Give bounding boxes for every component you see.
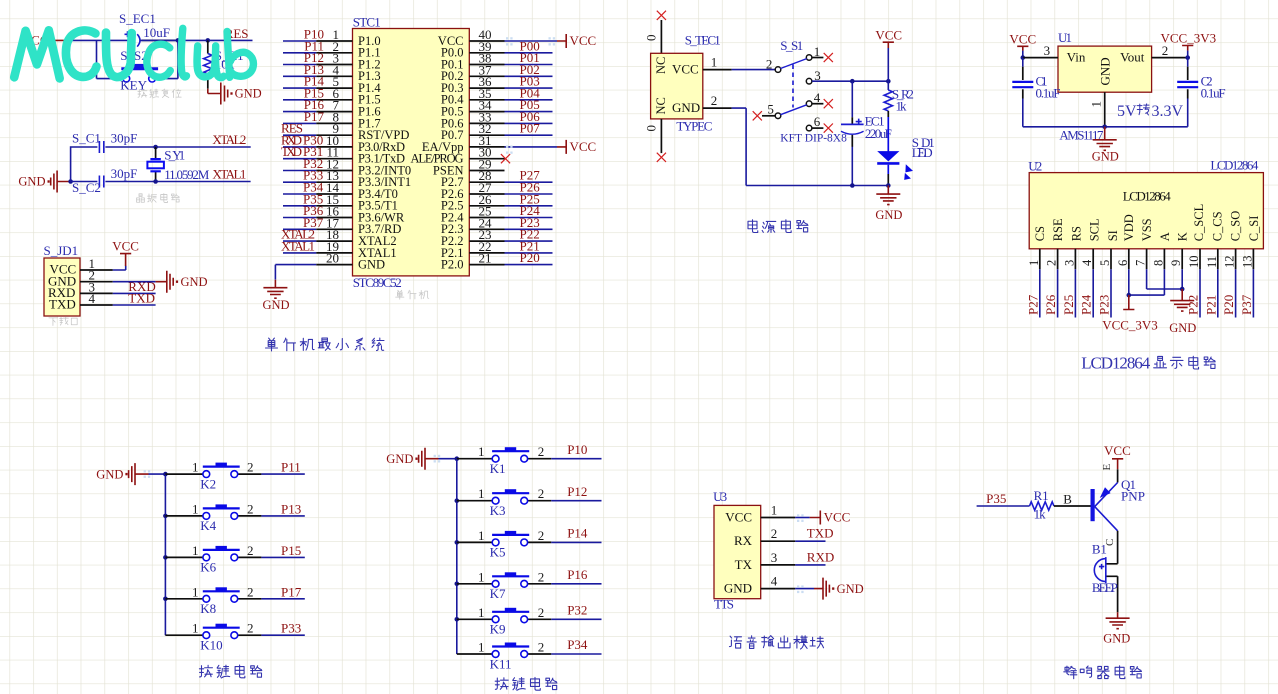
- svg-text:GND: GND: [1098, 57, 1113, 85]
- svg-text:0.1uF: 0.1uF: [1201, 86, 1226, 101]
- svg-text:S_TEC1: S_TEC1: [685, 33, 721, 48]
- svg-text:RS: RS: [1069, 226, 1083, 241]
- wire P10: [551, 442, 601, 459]
- IC U2 LCD12864: [1028, 158, 1263, 249]
- pin numbers U3: [771, 503, 778, 589]
- wire bus (keys left): [164, 474, 166, 635]
- svg-text:P23: P23: [1097, 295, 1112, 315]
- wire VDD to VCC_3V3 and to A: [1129, 269, 1165, 295]
- logo M: [14, 30, 60, 78]
- title 语音输出模块: [729, 636, 823, 649]
- svg-text:2: 2: [538, 528, 545, 543]
- pin 1 U3 + power port VCC: [761, 510, 851, 525]
- svg-text:K4: K4: [200, 518, 216, 533]
- svg-text:B1: B1: [1092, 542, 1107, 557]
- svg-text:VCC: VCC: [875, 27, 902, 42]
- pin 2 wire: [80, 281, 156, 283]
- svg-text:11.0592M: 11.0592M: [164, 167, 209, 182]
- connector S_JD1: [44, 243, 81, 316]
- wires P2 bus right: [505, 182, 553, 264]
- wires U2 pins 10-13: [1200, 269, 1253, 317]
- logo l: [181, 28, 186, 77]
- IC STC1 STC89C52: [353, 15, 470, 290]
- title 蜂鸣器电路: [1064, 666, 1142, 679]
- svg-text:S_JD1: S_JD1: [44, 243, 79, 258]
- svg-text:KFT DIP-8X8: KFT DIP-8X8: [780, 133, 847, 145]
- net labels P22 P21 P20 P37 (rotated): [1186, 294, 1254, 315]
- node junction EC1 bottom: [850, 183, 855, 188]
- pin names STC1 right: [411, 34, 465, 272]
- svg-text:S_C1: S_C1: [72, 131, 101, 146]
- wire P16: [551, 567, 601, 584]
- svg-text:VCC: VCC: [672, 62, 699, 77]
- svg-text:6: 6: [1116, 260, 1130, 266]
- wires P0 bus right: [505, 53, 553, 135]
- svg-text:VCC: VCC: [1104, 443, 1131, 458]
- wire P34: [551, 637, 601, 654]
- pin 4 U3 + ground GND (sideways): [761, 578, 864, 600]
- svg-text:2: 2: [247, 543, 254, 558]
- node junction K: [1180, 287, 1185, 292]
- net label XTAL2: [212, 132, 246, 147]
- logo C: [66, 30, 97, 76]
- wire VCC_3V3 down: [1187, 51, 1189, 58]
- svg-text:P2.0: P2.0: [441, 258, 464, 272]
- svg-text:2: 2: [538, 640, 545, 655]
- svg-text:5: 5: [767, 102, 774, 117]
- label B (base): [1063, 491, 1072, 506]
- wire node to node R1: [178, 39, 208, 41]
- node junction bus top: [163, 472, 168, 477]
- pin numbers S_S1: [766, 44, 821, 129]
- svg-text:GND: GND: [837, 582, 864, 596]
- svg-text:1: 1: [478, 486, 485, 501]
- pin 4 wire: [80, 304, 156, 306]
- svg-text:6: 6: [814, 114, 821, 129]
- net label RXD: [128, 279, 155, 294]
- key K7: [457, 569, 552, 601]
- pin stub + X on S_S1 pin 5: [762, 115, 775, 117]
- svg-text:GND: GND: [358, 258, 385, 272]
- power port VCC (reset): [22, 33, 64, 48]
- node junction GND rail: [1102, 125, 1107, 130]
- svg-text:GND: GND: [875, 208, 902, 222]
- wire P11: [261, 460, 304, 475]
- pin stub + X on S_S1 pin 1: [812, 57, 824, 59]
- net label XTAL1: [212, 166, 246, 181]
- wire VSS to K: [1147, 269, 1183, 289]
- svg-text:NC: NC: [654, 57, 668, 74]
- capacitor S_C1 30pF: [72, 131, 137, 153]
- node junctions bus: [163, 514, 168, 519]
- pins STC1 right (black stubs): [469, 41, 504, 265]
- wire bus (keys middle): [456, 459, 458, 654]
- ground GND (reset, sideways right): [208, 83, 262, 105]
- svg-text:P17: P17: [281, 584, 302, 599]
- power port VCC (AMS in): [1009, 31, 1036, 50]
- key K10: [165, 621, 261, 653]
- svg-text:S_S1: S_S1: [780, 38, 803, 53]
- svg-text:0.1uF: 0.1uF: [1036, 86, 1061, 101]
- svg-text:P21: P21: [1203, 295, 1218, 315]
- svg-text:P17: P17: [304, 109, 325, 124]
- svg-text:2: 2: [247, 584, 254, 599]
- ground GND (crystal, sideways left of rail): [18, 171, 70, 193]
- wire P33: [261, 621, 304, 636]
- pin 0 top (TYPEC): [644, 20, 662, 53]
- net labels P27-P20: [520, 168, 541, 265]
- IC U3 TTS: [713, 489, 761, 611]
- capacitor S_C2 30pF: [72, 166, 137, 195]
- svg-text:C_SI: C_SI: [1247, 216, 1261, 242]
- crystal S_Y1 11.0592M: [147, 147, 209, 182]
- svg-text:P14: P14: [567, 526, 588, 541]
- wire S_C1 to XTAL2: [105, 146, 250, 148]
- pin 2 S_TEC1: [703, 93, 732, 108]
- svg-text:VCC_3V3: VCC_3V3: [1102, 318, 1158, 333]
- svg-text:1: 1: [192, 501, 199, 516]
- wire GND to bus: [439, 458, 457, 460]
- svg-text:NC: NC: [654, 97, 668, 114]
- svg-text:10uF: 10uF: [143, 25, 170, 40]
- svg-text:1: 1: [1027, 260, 1041, 266]
- svg-text:1: 1: [711, 55, 718, 70]
- svg-text:1: 1: [771, 503, 778, 518]
- svg-text:VCC: VCC: [570, 33, 597, 48]
- svg-text:VCC: VCC: [824, 510, 851, 525]
- svg-text:30pF: 30pF: [111, 131, 138, 146]
- svg-text:8: 8: [1151, 260, 1165, 266]
- svg-text:P35: P35: [986, 491, 1006, 506]
- logo c: [147, 44, 170, 77]
- wires U2 pins 1-5: [1040, 269, 1111, 317]
- svg-text:K7: K7: [490, 586, 506, 601]
- svg-text:GND: GND: [235, 87, 262, 101]
- svg-text:C_CS: C_CS: [1210, 211, 1224, 241]
- svg-text:K11: K11: [490, 656, 512, 671]
- wire P13: [261, 501, 304, 516]
- svg-text:R1: R1: [1034, 488, 1049, 503]
- pin numbers S_JD1: [89, 256, 96, 306]
- svg-text:STC89C52: STC89C52: [353, 275, 402, 290]
- node junction at R1: [206, 38, 211, 43]
- svg-text:2: 2: [247, 460, 254, 475]
- resistor S_R2 1k: [884, 81, 914, 151]
- logo U: [106, 33, 132, 78]
- svg-text:TXD: TXD: [807, 526, 834, 541]
- svg-text:K8: K8: [200, 601, 216, 616]
- svg-text:1: 1: [192, 460, 199, 475]
- svg-text:GND: GND: [1103, 632, 1130, 646]
- title 按键电路 (left): [199, 665, 261, 678]
- svg-text:VDD: VDD: [1122, 214, 1136, 241]
- wire P17: [261, 584, 304, 599]
- capacitor S_EC1 10uF: [119, 11, 178, 47]
- svg-text:K1: K1: [490, 461, 506, 476]
- svg-text:VSS: VSS: [1140, 218, 1154, 241]
- svg-text:CS: CS: [1033, 226, 1047, 241]
- svg-text:P13: P13: [281, 501, 301, 516]
- svg-text:GND: GND: [96, 467, 123, 481]
- ground GND (LCD): [1169, 289, 1196, 335]
- pin numbers STC1 right 40-21: [479, 27, 493, 266]
- wire P32: [551, 603, 601, 620]
- svg-text:U3: U3: [713, 489, 727, 504]
- svg-text:0: 0: [644, 35, 659, 42]
- svg-text:7: 7: [1134, 260, 1148, 266]
- svg-text:TTS: TTS: [714, 596, 734, 611]
- wire P15: [261, 543, 304, 558]
- svg-text:KEY: KEY: [120, 78, 147, 93]
- power port VCC (S_JD1): [112, 239, 139, 266]
- svg-text:RSE: RSE: [1051, 218, 1065, 241]
- svg-text:P27: P27: [1025, 294, 1040, 315]
- net labels P00-P07: [520, 38, 541, 135]
- svg-text:P10: P10: [567, 442, 587, 457]
- svg-text:3: 3: [1044, 43, 1051, 58]
- transistor Q1 PNP: [1091, 477, 1146, 531]
- capacitor EC1 220uF: [841, 81, 892, 185]
- svg-text:2: 2: [538, 569, 545, 584]
- svg-text:K: K: [1176, 232, 1190, 241]
- svg-text:5: 5: [1098, 260, 1112, 266]
- logo b: [227, 31, 253, 77]
- svg-text:1: 1: [192, 543, 199, 558]
- svg-text:2: 2: [766, 56, 773, 71]
- svg-text:S_C2: S_C2: [72, 180, 101, 195]
- pin 2 U1: [1152, 43, 1188, 58]
- wire bottom rail XTAL1: [71, 181, 251, 183]
- ground GND (keys left): [96, 463, 148, 485]
- svg-text:K10: K10: [200, 638, 222, 653]
- wire switch branch left: [97, 40, 178, 78]
- svg-text:1: 1: [192, 584, 199, 599]
- node snap markers (light blue): [144, 37, 804, 593]
- wire P14: [551, 526, 601, 543]
- svg-text:P24: P24: [1079, 294, 1094, 315]
- node junction VDD: [1127, 293, 1132, 298]
- net label TXD: [128, 291, 155, 306]
- svg-text:STC1: STC1: [353, 15, 381, 30]
- svg-text:TXD: TXD: [128, 291, 155, 306]
- key K3: [457, 486, 552, 518]
- key K5: [457, 528, 552, 560]
- pin 3 U3 + net label RXD: [761, 549, 835, 565]
- node junction at crystal top: [153, 145, 158, 150]
- connector S_TEC1 TYPEC: [651, 33, 721, 134]
- wire VCC to R2: [887, 48, 889, 81]
- svg-text:2: 2: [711, 93, 718, 108]
- svg-text:SI: SI: [1106, 230, 1120, 241]
- pin numbers STC1 left 1-20: [326, 27, 340, 266]
- capacitor C1 0.1uF: [1012, 58, 1104, 127]
- wire TEC1 to switch: [732, 69, 776, 71]
- svg-text:VCC: VCC: [725, 510, 752, 525]
- logo u: [197, 46, 224, 78]
- wire VCC to S_EC1: [64, 39, 129, 41]
- wire GND to bus: [149, 473, 166, 475]
- node junction at cap/switch: [176, 38, 181, 43]
- svg-text:13: 13: [1240, 256, 1254, 269]
- wire GND pin20: [275, 265, 316, 280]
- svg-text:1: 1: [478, 605, 485, 620]
- svg-text:11: 11: [1205, 256, 1219, 268]
- node junctions bus: [455, 498, 460, 503]
- power port VCC_3V3 (AMS out): [1160, 31, 1216, 51]
- svg-text:LCD12864: LCD12864: [1123, 188, 1172, 203]
- svg-text:2: 2: [247, 621, 254, 636]
- svg-text:GND: GND: [724, 581, 752, 596]
- svg-text:P22: P22: [1186, 295, 1201, 315]
- svg-text:2: 2: [247, 501, 254, 516]
- svg-text:2: 2: [538, 444, 545, 459]
- node junction bus top: [455, 456, 460, 461]
- svg-text:1k: 1k: [896, 99, 908, 114]
- svg-text:LCD12864: LCD12864: [1210, 158, 1259, 173]
- pins U2 (black stubs down): [1040, 249, 1254, 269]
- title 按键电路 (middle): [495, 677, 557, 690]
- key K9: [457, 605, 552, 637]
- label C (rotated): [1104, 539, 1116, 546]
- wire GND rail bottom: [732, 108, 889, 185]
- wire P12: [551, 484, 601, 501]
- node junction EC1 top: [850, 79, 855, 84]
- svg-text:1: 1: [192, 621, 199, 636]
- pin stub + X on S_S1 pin 4: [812, 103, 824, 105]
- pin 2 U3 + net label TXD: [761, 526, 834, 542]
- node junction at crystal bottom: [153, 179, 158, 184]
- ground GND (buzzer): [1103, 612, 1130, 645]
- wire VCC down: [1022, 51, 1024, 58]
- label 下载口 (gray): [49, 317, 77, 326]
- svg-text:TXD: TXD: [49, 297, 76, 312]
- svg-text:VCC_3V3: VCC_3V3: [1160, 31, 1216, 46]
- ground GND (S_JD1, sideways): [156, 271, 208, 293]
- svg-text:3: 3: [771, 550, 778, 565]
- svg-text:TX: TX: [735, 557, 753, 572]
- pin 3 U1: [1023, 43, 1058, 58]
- svg-text:K6: K6: [200, 560, 216, 575]
- svg-text:9: 9: [1169, 260, 1183, 266]
- svg-text:RX: RX: [734, 533, 753, 548]
- label 晶振电路 (gray): [137, 194, 180, 203]
- svg-text:U2: U2: [1028, 158, 1042, 173]
- svg-text:Vin: Vin: [1067, 50, 1086, 65]
- svg-text:SCL: SCL: [1088, 218, 1102, 241]
- net labels STC1 left: [304, 27, 325, 124]
- svg-text:XTAL1: XTAL1: [281, 238, 315, 253]
- svg-text:GND: GND: [386, 452, 413, 466]
- svg-text:P11: P11: [281, 460, 301, 475]
- svg-text:P20: P20: [520, 250, 540, 265]
- key K1: [457, 444, 552, 476]
- ground GND (AMS1117): [1092, 127, 1119, 164]
- label 单片机 (gray): [396, 290, 429, 299]
- title 电源电路: [748, 220, 808, 233]
- svg-text:C_SO: C_SO: [1229, 211, 1243, 242]
- key K6: [165, 543, 261, 575]
- switch S_S1 KFT DIP-8X8: [775, 38, 847, 145]
- svg-text:BEEP: BEEP: [1092, 580, 1118, 595]
- pin names STC1 left: [358, 34, 411, 272]
- pin 3 wire: [80, 292, 156, 294]
- svg-text:S_EC1: S_EC1: [119, 11, 156, 26]
- svg-text:4: 4: [1080, 259, 1094, 266]
- pin 0 bottom (TYPEC): [644, 119, 662, 153]
- power port VCC (buzzer): [1104, 443, 1131, 469]
- resistor R1 1k: [1030, 488, 1091, 522]
- svg-text:GND: GND: [1092, 149, 1119, 163]
- node junction C2/Vout: [1185, 55, 1190, 60]
- wire switch pin3 to VCC rail: [812, 80, 888, 82]
- svg-text:P33: P33: [281, 621, 301, 636]
- label 5V转3.3V: [1117, 103, 1184, 120]
- svg-text:P32: P32: [567, 603, 587, 618]
- node junction R2 top rail: [886, 79, 891, 84]
- svg-text:VCC: VCC: [570, 139, 597, 154]
- svg-text:1k: 1k: [1034, 507, 1047, 522]
- power port VCC (top of R2): [875, 27, 902, 48]
- svg-text:2: 2: [1045, 260, 1059, 266]
- svg-text:A: A: [1158, 232, 1172, 241]
- pin 1 S_TEC1: [703, 55, 732, 70]
- ground GND (MCU pin20): [262, 280, 289, 312]
- wire VCC to emitter: [1117, 469, 1119, 482]
- svg-text:0: 0: [644, 125, 659, 132]
- svg-text:P20: P20: [1221, 295, 1236, 315]
- key K11: [457, 640, 552, 672]
- svg-text:PNP: PNP: [1121, 488, 1145, 503]
- svg-text:E: E: [1101, 464, 1113, 471]
- svg-text:GND: GND: [1169, 321, 1196, 335]
- svg-text:XTAL2: XTAL2: [212, 132, 246, 147]
- wire EA/Vpp + power port VCC: [505, 139, 597, 154]
- ground GND (keys middle): [386, 448, 438, 470]
- switch S_S2 KEY: [120, 48, 158, 93]
- key K8: [165, 584, 261, 616]
- svg-text:P34: P34: [567, 637, 588, 652]
- svg-text:LED: LED: [912, 145, 933, 160]
- svg-text:P16: P16: [567, 567, 588, 582]
- svg-text:K3: K3: [490, 503, 506, 518]
- svg-text:Vout: Vout: [1120, 50, 1145, 65]
- svg-text:TXD: TXD: [281, 144, 302, 159]
- svg-text:K9: K9: [490, 622, 506, 637]
- no-connect X bottom of S_TEC1: [657, 153, 666, 162]
- svg-text:GND: GND: [18, 175, 45, 189]
- wires STC1 left: [283, 41, 316, 253]
- key K2: [165, 460, 261, 492]
- svg-text:U1: U1: [1058, 30, 1072, 45]
- svg-text:P37: P37: [1239, 294, 1254, 315]
- label 按键复位 (gray): [138, 89, 181, 98]
- node junction C1/Vin: [1021, 55, 1026, 60]
- pins STC1 left (black stubs): [316, 41, 352, 265]
- net label RES: [225, 26, 249, 41]
- svg-text:B: B: [1063, 491, 1072, 506]
- pin stub + X on S_S1 pin 6: [812, 127, 824, 129]
- pin numbers U2 1-13 (rotated): [1027, 256, 1255, 269]
- power port VCC_3V3 (LCD): [1102, 295, 1158, 332]
- wire left riser: [71, 147, 98, 182]
- net labels P27-P23 (rotated): [1025, 294, 1111, 315]
- svg-text:3.3V: 3.3V: [1152, 103, 1184, 120]
- svg-text:2: 2: [771, 526, 778, 541]
- wire S_EC1 to node: [140, 39, 178, 41]
- svg-text:30pF: 30pF: [111, 166, 138, 181]
- title 单片机最小系统: [266, 338, 385, 351]
- capacitor C2 0.1uF: [1105, 58, 1226, 127]
